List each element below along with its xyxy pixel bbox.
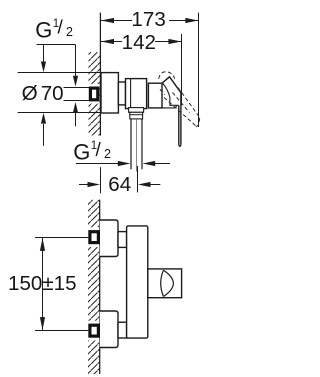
dimension Ø70: bottom leader line	[18, 112, 101, 114]
lever open blade hinge dash	[160, 89, 165, 95]
dimension 150±15: bottom arrowhead	[40, 317, 45, 330]
dimension 142: right extension line	[181, 34, 183, 105]
dimension 64: left extension bar (wall)	[100, 167, 102, 193]
dimension 173: line right segment	[169, 20, 198, 22]
svg-text:G: G	[73, 140, 90, 165]
outlet pipe left edge	[130, 119, 132, 169]
label G 1/2 (upper): up arrow to thread bottom	[75, 112, 77, 126]
svg-text:2: 2	[104, 147, 111, 161]
svg-text:173: 173	[131, 8, 165, 31]
svg-text:G: G	[35, 17, 52, 42]
lever travel arc (dashed)	[159, 72, 175, 79]
svg-text:2: 2	[66, 25, 73, 39]
hub bottom lip	[162, 105, 177, 108]
label G 1/2 (upper): leader underline	[37, 44, 76, 46]
wall surface line (bottom view)	[99, 200, 101, 374]
dimension 142: left arrowhead	[101, 39, 114, 44]
outlet pipe right edge	[141, 119, 143, 169]
hatch gap around union 1	[87, 227, 99, 247]
hatch gap around wall union	[88, 84, 100, 104]
handle knob	[148, 269, 182, 298]
outlet nut	[130, 112, 143, 119]
dimension Ø70: top leader line	[18, 72, 101, 74]
dimension 142: right arrowhead	[168, 39, 181, 44]
wall surface line + extension up (top view)	[99, 13, 101, 136]
lever ridge (closed)	[162, 77, 181, 93]
lever open position mid edge (dashed)	[173, 93, 190, 113]
outlet collar step	[129, 108, 144, 113]
thread edge line top (L1)	[64, 87, 90, 89]
lever blade front edge	[180, 93, 182, 145]
dimension 150±15: top extension line	[35, 237, 88, 239]
wall union square 2 (bottom view)	[90, 325, 99, 336]
svg-text:70: 70	[41, 82, 64, 105]
handle hub	[148, 83, 162, 108]
thread edge line bottom (L2)	[64, 100, 90, 102]
dimension 142: line right segment	[155, 41, 181, 43]
knob crescent left arc	[161, 270, 164, 296]
lever open tip (dashed)	[196, 118, 200, 127]
union block 1	[100, 220, 118, 257]
dimension 64: right extension bar (pipe axis)	[137, 166, 139, 192]
outlet nut band line	[130, 114, 143, 116]
connector 1	[118, 232, 127, 248]
dimension 64: right arrow	[151, 184, 161, 186]
dimension 150±15: top arrowhead	[40, 238, 45, 251]
dimension 173: right extension line	[198, 13, 200, 127]
dimension 150±15: vertical line	[42, 238, 44, 331]
check-valve housing block	[126, 79, 147, 109]
dimension 142: line left segment	[101, 41, 122, 43]
dimension Ø70: top arrow	[43, 45, 45, 63]
dimension 64: left arrow	[79, 184, 88, 186]
union neck	[118, 82, 125, 105]
outlet pipe centerline	[135, 119, 137, 172]
svg-text:/: /	[96, 140, 102, 161]
connector 2	[118, 322, 127, 338]
label G 1/2 (lower): left arrow to pipe	[76, 163, 119, 165]
dimension 173: line left segment	[101, 20, 132, 22]
wall union square (top view)	[90, 88, 97, 100]
housing internal edge	[130, 79, 132, 109]
hatch gap around union 2	[87, 321, 99, 341]
dimension 150±15: bottom extension line	[35, 330, 88, 332]
union block 2	[100, 311, 118, 348]
lever open position front edge (dashed)	[178, 88, 200, 118]
dimension 173: right arrowhead	[185, 18, 198, 23]
dimension Ø70: bottom arrow	[43, 124, 45, 146]
lever blade back edge	[178, 105, 180, 144]
knob crescent right arc	[164, 270, 174, 296]
lever blade bottom tip	[179, 145, 181, 147]
body slab	[127, 226, 148, 338]
wall hatching (bottom view)	[88, 200, 100, 374]
label G 1/2 (upper): leader vertical + down arrow to thread	[75, 45, 77, 77]
label G 1/2 (lower): right arrow to pipe	[155, 163, 171, 165]
svg-text:150±15: 150±15	[8, 272, 77, 295]
escutcheon (top view)	[101, 73, 118, 113]
svg-text:/: /	[58, 18, 64, 39]
wall union square 1 (bottom view)	[90, 232, 99, 243]
lever open position back edge (dashed)	[164, 98, 196, 127]
wall hatching (top view)	[89, 52, 101, 136]
svg-text:142: 142	[122, 31, 156, 54]
svg-text:Ø: Ø	[22, 82, 38, 105]
svg-text:64: 64	[108, 173, 131, 196]
dimension 173: left arrowhead	[101, 18, 114, 23]
lever hub underside	[163, 83, 179, 105]
